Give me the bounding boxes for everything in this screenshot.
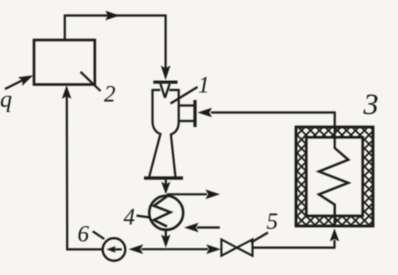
bottom flange	[144, 176, 183, 179]
svg-text:4: 4	[124, 205, 136, 230]
valve 5	[221, 240, 252, 256]
chamber body and diffuser	[149, 89, 178, 177]
arrow: coolant outlet right of 4	[167, 190, 220, 200]
label 1	[171, 73, 210, 104]
wire: generator 3 vapor line to ejector side port	[198, 108, 335, 149]
arrow q (heat input into 2)	[5, 75, 33, 89]
svg-text:6: 6	[78, 222, 90, 247]
label 5	[251, 209, 278, 243]
svg-text:5: 5	[267, 209, 279, 234]
wire: ejector outlet to condenser 4	[161, 180, 170, 195]
svg-text:1: 1	[198, 73, 210, 98]
top flange	[153, 81, 177, 84]
wire: condenser 4 outlet down to return line	[161, 230, 170, 248]
vessel 2 (tank, top-left)	[34, 40, 95, 85]
label 4	[124, 205, 150, 230]
chamber top edges	[153, 89, 179, 91]
wire: pump 6 outlet back to vessel 2 (left riser)	[62, 85, 103, 249]
label q	[0, 87, 12, 113]
wire: 2 top to ejector 1 inlet	[65, 11, 171, 80]
wire: valve 5 to generator 3 bottom	[253, 228, 340, 247]
svg-text:2: 2	[104, 82, 116, 107]
arrow: coolant inlet right of 4 (pointing left)	[184, 223, 220, 233]
ejector U1	[144, 81, 197, 180]
wire: condensate line to valve 5 (arrow right)	[166, 244, 221, 254]
nozzle	[160, 84, 169, 98]
svg-text:3: 3	[363, 88, 379, 121]
pump 6	[103, 238, 126, 261]
heating coil in 3	[319, 148, 348, 227]
label 3	[363, 88, 379, 121]
label 2	[81, 72, 116, 107]
svg-text:q: q	[0, 87, 12, 113]
side port	[179, 106, 194, 122]
vessel 3 (hatched generator/boiler)	[296, 127, 373, 226]
label 6	[78, 222, 105, 247]
condenser 4 (circle with coil)	[149, 196, 183, 230]
wire: condensate line to pump 6 (arrow left)	[129, 244, 166, 254]
